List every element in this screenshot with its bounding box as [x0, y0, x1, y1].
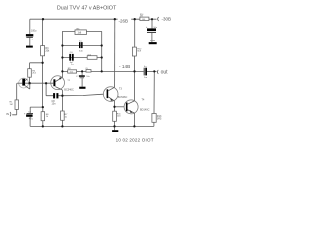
svg-text:-30B: -30B [162, 16, 172, 21]
svg-text:C9: C9 [85, 68, 87, 70]
svg-text:1M: 1M [10, 104, 13, 106]
svg-text:100u: 100u [31, 30, 37, 33]
svg-text:47u: 47u [29, 117, 34, 120]
svg-text:10 02 2022 OIOT: 10 02 2022 OIOT [116, 137, 154, 142]
svg-text:out: out [161, 69, 169, 75]
svg-text:BC546C: BC546C [118, 96, 128, 99]
svg-text:-26B: -26B [119, 18, 129, 23]
svg-text:10u: 10u [86, 76, 89, 78]
svg-text:10n: 10n [52, 103, 57, 106]
svg-text:BC546C: BC546C [64, 88, 74, 91]
svg-text:- 14B: - 14B [119, 64, 130, 69]
svg-text:Dual TVV 47 v AB+OIOT: Dual TVV 47 v AB+OIOT [57, 6, 117, 12]
svg-text:BD140C: BD140C [140, 109, 150, 112]
svg-text:1m: 1m [144, 77, 147, 79]
svg-text:15k: 15k [70, 72, 73, 74]
svg-text:IN: IN [6, 112, 9, 116]
svg-text:4W: 4W [140, 16, 143, 18]
svg-text:0R5: 0R5 [157, 118, 162, 121]
